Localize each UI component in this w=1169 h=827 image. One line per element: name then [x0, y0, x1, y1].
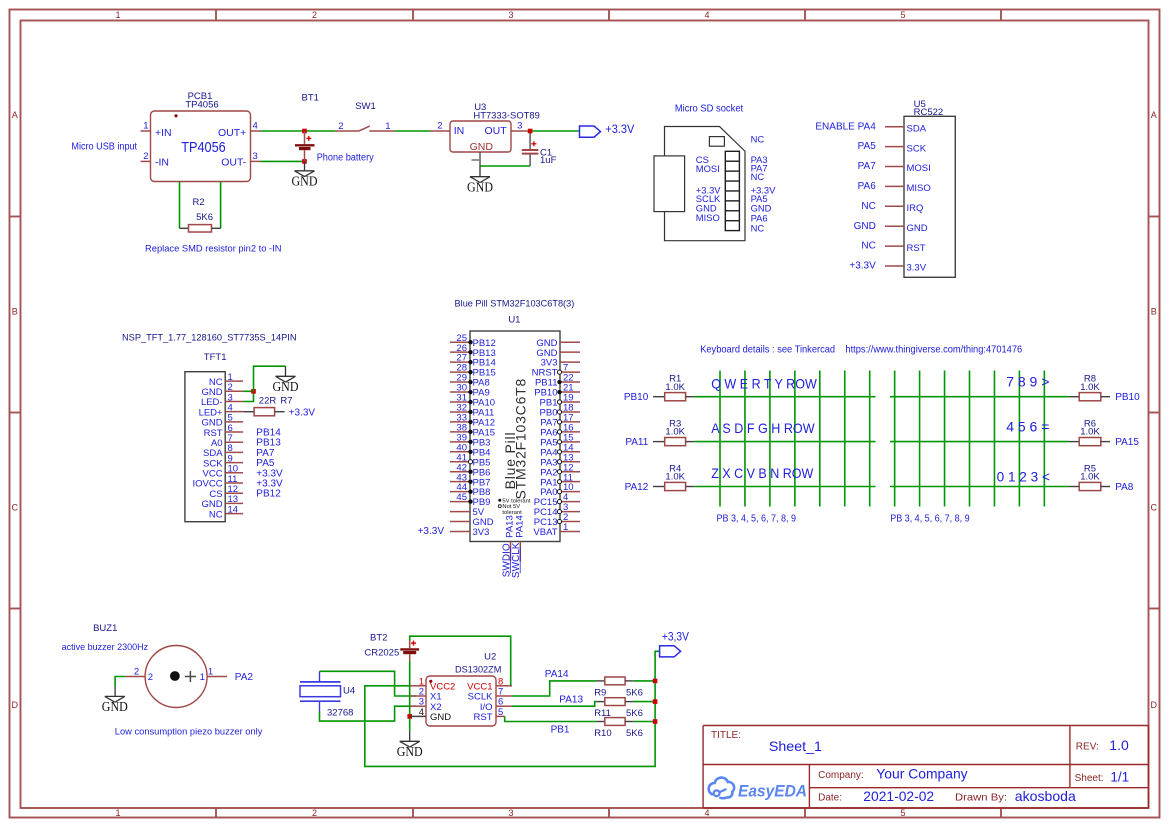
wire row 2 right	[890, 441, 1069, 443]
svg-text:4: 4	[704, 10, 709, 20]
svg-text:REV:: REV:	[1076, 742, 1099, 753]
U3 pin 1 GND	[472, 152, 481, 166]
svg-text:U1: U1	[508, 314, 520, 325]
svg-text:+3.3V: +3.3V	[849, 261, 876, 272]
U2 pin 8 VCC1	[467, 676, 512, 692]
IC PCB1 TP4056 charger	[151, 91, 251, 182]
svg-text:NC: NC	[209, 509, 223, 520]
svg-text:3: 3	[508, 10, 513, 20]
svg-text:TITLE:: TITLE:	[711, 730, 741, 741]
svg-text:IN: IN	[454, 125, 465, 137]
svg-text:STM32F103C6T8: STM32F103C6T8	[513, 378, 529, 500]
U1 5V tolerant legend	[498, 498, 531, 516]
svg-text:PA14: PA14	[514, 515, 525, 538]
svg-text:PA7: PA7	[858, 161, 877, 172]
svg-text:PB12: PB12	[256, 489, 281, 500]
svg-text:DS1302ZM: DS1302ZM	[455, 665, 501, 676]
svg-text:Micro SD socket: Micro SD socket	[675, 104, 744, 115]
svg-text:Phone battery: Phone battery	[317, 152, 374, 163]
svg-text:2: 2	[143, 151, 148, 162]
U1 pin - 3V3	[450, 527, 489, 538]
U1 pin PA14 SWCLK	[511, 515, 525, 578]
wire U4 bottom to X2	[320, 706, 417, 721]
svg-text:2: 2	[312, 808, 317, 818]
U1 pin 14 PA4	[540, 442, 580, 458]
U1 pin 25 PB12	[450, 333, 496, 349]
U1 pin 11 PA1	[540, 472, 580, 488]
svg-text:Your Company: Your Company	[876, 766, 967, 782]
svg-text:3.3V: 3.3V	[907, 263, 927, 274]
IC U2 DS1302ZM	[426, 652, 501, 727]
svg-text:1.0K: 1.0K	[665, 427, 685, 438]
svg-text:RST: RST	[907, 243, 926, 254]
wire OUT- to BT1	[261, 160, 305, 162]
U1 pin 42 PB6	[450, 462, 490, 478]
wire row 1 left	[695, 396, 876, 398]
svg-text:GND: GND	[102, 699, 128, 714]
U1 pin 32 PA11	[450, 403, 494, 419]
SD pin contacts	[725, 151, 739, 230]
svg-text:MOSI: MOSI	[696, 163, 720, 174]
svg-text:4: 4	[419, 707, 424, 718]
TFT1 pin 10 VCC	[203, 464, 284, 480]
wire TFT pin2 to GND net	[243, 390, 253, 392]
svg-text:Sheet:: Sheet:	[1075, 773, 1104, 784]
svg-text:PA2: PA2	[235, 672, 254, 683]
svg-text:OUT-: OUT-	[221, 157, 247, 169]
buzzer BUZ1	[62, 623, 263, 737]
svg-text:NSP_TFT_1.77_128160_ST7735S_14: NSP_TFT_1.77_128160_ST7735S_14PIN	[122, 333, 297, 344]
U1 pin - GND	[450, 517, 494, 528]
U3 pin 2 IN	[430, 120, 450, 131]
svg-text:+3.3V: +3.3V	[289, 408, 316, 419]
U5 pin 5 IRQ	[861, 201, 923, 214]
svg-text:4: 4	[253, 121, 258, 132]
BUZ1 pin 1 PA2	[200, 666, 254, 683]
svg-text:-IN: -IN	[155, 157, 169, 169]
svg-text:RC522: RC522	[914, 107, 944, 118]
svg-text:1.0K: 1.0K	[665, 382, 685, 393]
U1 pin 30 PA9	[450, 383, 490, 399]
junction C1 top	[528, 129, 533, 134]
U5 pin 6 GND	[854, 221, 928, 234]
svg-text:Z X C V B N ROW: Z X C V B N ROW	[711, 465, 814, 481]
U2 pin 7 SCLK	[468, 687, 512, 703]
svg-text:PB 3, 4, 5, 6, 7, 8, 9: PB 3, 4, 5, 6, 7, 8, 9	[717, 514, 797, 525]
U1 pin 1 VBAT	[533, 522, 580, 538]
svg-text:MISO: MISO	[907, 183, 931, 194]
pin 4 OUT+	[251, 121, 261, 132]
TFT1 pin 5 GND	[201, 413, 243, 429]
svg-text:U2: U2	[484, 652, 496, 663]
U1 pin 44 PB8	[450, 482, 490, 498]
wire U3 OUT to flag	[529, 130, 580, 132]
svg-text:GND: GND	[470, 141, 494, 153]
U1 pin 28 PB15	[450, 363, 496, 379]
svg-text:A S D F G H ROW: A S D F G H ROW	[711, 420, 815, 436]
U1 pin 26 PB13	[450, 343, 496, 359]
IC U1 Blue Pill STM32F103C6T8	[455, 298, 575, 541]
svg-text:C: C	[1150, 503, 1157, 513]
keyboard column wires PB3-PB9 group 1	[720, 371, 870, 507]
svg-text:PA6: PA6	[858, 181, 877, 192]
U1 pin 38 PA15	[450, 422, 495, 438]
U2 pin 6 I/O	[480, 697, 512, 713]
battery BT2 CR2025	[364, 633, 419, 661]
svg-text:SDA: SDA	[907, 123, 927, 134]
wire BUZ1 to gnd	[115, 677, 125, 687]
svg-text:BUZ1: BUZ1	[93, 623, 117, 634]
svg-text:SCK: SCK	[907, 143, 927, 154]
svg-text:R9: R9	[594, 687, 606, 698]
svg-text:1uF: 1uF	[540, 155, 557, 166]
U1 pin 31 PA10	[450, 393, 495, 409]
svg-text:+3,3V: +3,3V	[662, 629, 689, 643]
junction BT1 top	[302, 129, 307, 134]
svg-text:14: 14	[228, 504, 239, 515]
U1 pin 29 PA8	[450, 373, 490, 389]
TFT1 pin 6 RST	[204, 423, 282, 439]
resistor R1 1.0K left row 1	[624, 374, 695, 404]
pin 1 +IN	[141, 121, 151, 132]
svg-text:+3.3V: +3.3V	[418, 526, 445, 537]
junction R10 rail	[653, 719, 658, 724]
U5 pin 4 MISO	[858, 181, 931, 194]
svg-text:PA5: PA5	[858, 141, 877, 152]
junction U2 gnd	[407, 714, 412, 719]
svg-text:GND: GND	[467, 179, 493, 194]
svg-text:C: C	[11, 503, 18, 513]
switch SW1	[335, 101, 395, 132]
svg-text:Blue Pill STM32F103C6T8(3): Blue Pill STM32F103C6T8(3)	[455, 298, 575, 309]
svg-text:1.0K: 1.0K	[1080, 382, 1100, 393]
svg-text:Sheet_1: Sheet_1	[769, 738, 822, 754]
svg-text:BT2: BT2	[370, 633, 387, 644]
U5 pin 2 SCK	[858, 141, 927, 154]
svg-text:OUT+: OUT+	[218, 127, 246, 139]
U1 pin 22 PB11	[535, 373, 580, 389]
resistor R6 1.0K right row 2	[1069, 418, 1139, 448]
svg-text:45: 45	[456, 492, 467, 503]
wire row 3 left	[695, 486, 876, 488]
wire R10 to rail	[634, 721, 655, 723]
svg-text:active buzzer 2300Hz: active buzzer 2300Hz	[62, 642, 149, 653]
svg-text:MISO: MISO	[696, 212, 720, 223]
svg-text:1.0K: 1.0K	[1080, 472, 1100, 483]
svg-text:Keyboard details : see Tinkerc: Keyboard details : see Tinkercad https:/…	[700, 344, 1022, 355]
svg-text:GND: GND	[907, 223, 928, 234]
svg-text:32768: 32768	[327, 708, 353, 719]
U1 pin 2 PC13	[534, 512, 580, 528]
resistor R9 5K6	[594, 677, 643, 698]
U5 pin 1 SDA	[815, 121, 926, 134]
svg-text:5: 5	[498, 707, 503, 718]
TFT1 pin 7 A0	[211, 433, 281, 449]
svg-text:Micro USB input: Micro USB input	[71, 142, 137, 153]
resistor R3 1.0K left row 2	[625, 418, 694, 448]
U1 pin 12 PA2	[540, 462, 580, 478]
svg-text:5K6: 5K6	[626, 728, 643, 739]
TFT1 pin 9 SCK	[203, 453, 275, 469]
U1 pin 15 PA5	[540, 432, 580, 448]
svg-text:7 8 9 >: 7 8 9 >	[1006, 374, 1049, 390]
svg-text:GND: GND	[273, 379, 299, 394]
svg-text:+3.3V: +3.3V	[605, 122, 634, 136]
resistor R5 1.0K right row 3	[1069, 463, 1134, 493]
wire U3 GND to C1	[480, 165, 530, 167]
U1 pin 41 PB5	[450, 452, 490, 468]
wire R9 to rail	[634, 680, 655, 682]
ground BT1	[292, 161, 318, 188]
U1 pin 43 PB7	[450, 472, 490, 488]
wire OUT+ to BT1 and SW1	[261, 130, 336, 132]
wire row 2 left	[695, 441, 876, 443]
svg-text:2: 2	[338, 121, 343, 132]
TFT1 pin 11 IOVCC	[193, 474, 284, 490]
svg-text:4 5 6 =: 4 5 6 =	[1006, 419, 1049, 435]
ground U3	[467, 166, 493, 194]
svg-text:2: 2	[312, 10, 317, 20]
svg-text:GND: GND	[854, 221, 876, 232]
wire SCLK to R9 PA14	[512, 681, 596, 696]
wire TFT pin3 up to pin2 net	[243, 391, 253, 401]
svg-text:D: D	[11, 700, 18, 710]
TFT1 pin 12 CS	[209, 484, 281, 500]
BUZ1 pin 2	[125, 666, 153, 683]
svg-text:2021-02-02: 2021-02-02	[863, 788, 934, 804]
resistor R8 1.0K right row 1	[1069, 374, 1140, 404]
U2 pin 5 RST	[474, 707, 505, 723]
battery BT1 Phone battery	[295, 92, 374, 163]
svg-text:Replace SMD resistor pin2 to -: Replace SMD resistor pin2 to -IN	[145, 244, 282, 254]
EasyEDA logo	[709, 778, 807, 801]
netflag +3,3V	[660, 629, 689, 657]
ground TFT	[273, 366, 299, 394]
svg-text:GND: GND	[292, 174, 318, 189]
svg-text:1.0: 1.0	[1109, 737, 1129, 753]
svg-text:5K6: 5K6	[626, 708, 643, 719]
svg-text:PA8: PA8	[1115, 482, 1134, 493]
svg-text:0 1 2 3 <: 0 1 2 3 <	[997, 469, 1050, 485]
wire TFT gnd run	[254, 366, 286, 391]
svg-text:Company:: Company:	[818, 770, 864, 781]
U1 pin PA13 SWDIO	[501, 515, 515, 577]
svg-text:2: 2	[134, 666, 139, 677]
U2 pin 3 X2	[410, 697, 442, 713]
wire R11 to rail	[634, 701, 655, 703]
svg-text:D: D	[1150, 700, 1157, 710]
U1 pin - 3V3	[541, 358, 580, 369]
SD left net labels	[696, 154, 722, 223]
svg-text:1: 1	[115, 10, 120, 20]
svg-text:NC: NC	[861, 241, 875, 252]
U1 pin 33 PA12	[450, 413, 495, 429]
svg-text:GND: GND	[430, 712, 451, 723]
svg-text:PB 3, 4, 5, 6, 7, 8, 9: PB 3, 4, 5, 6, 7, 8, 9	[890, 514, 970, 525]
svg-text:TP4056: TP4056	[185, 100, 218, 111]
svg-text:ENABLE PA4: ENABLE PA4	[815, 121, 876, 132]
wire BT2 minus to gnd	[409, 661, 411, 731]
crystal U4 32768	[300, 671, 355, 718]
svg-text:PA11: PA11	[625, 437, 648, 448]
svg-text:3V3: 3V3	[473, 527, 490, 538]
U3 pin 3 OUT	[511, 120, 529, 131]
svg-text:PA13: PA13	[559, 694, 583, 705]
svg-text:5: 5	[900, 808, 905, 818]
junction R9 rail	[653, 679, 658, 684]
svg-text:22R: 22R	[259, 396, 277, 407]
IC U3 HT7333-SOT89 regulator	[450, 102, 540, 153]
netflag +3.3V U3 output	[580, 122, 635, 137]
svg-text:PB1: PB1	[551, 724, 570, 735]
U1 pin - GND	[536, 348, 580, 359]
svg-text:PA14: PA14	[545, 669, 569, 680]
U2 pin 2 X1	[410, 687, 442, 703]
svg-text:1: 1	[208, 666, 213, 677]
TFT1 pin 13 GND	[201, 494, 243, 510]
svg-text:CR2025: CR2025	[364, 647, 399, 658]
resistor R10 5K6	[594, 718, 643, 739]
TFT1 pin 2 GND	[201, 382, 243, 398]
svg-text:akosboda: akosboda	[1015, 788, 1076, 804]
U2 pin 4 GND	[410, 707, 451, 723]
U5 pin 8 3.3V	[849, 261, 926, 274]
U1 pin 40 PB4	[450, 442, 490, 458]
svg-text:SW1: SW1	[355, 101, 376, 112]
U1 pin 10 PA0	[540, 482, 580, 498]
connector TFT1 box	[185, 352, 227, 522]
junction BT1 bottom	[302, 159, 307, 164]
U1 pin 39 PB3	[450, 432, 490, 448]
U1 pin 16 PA6	[540, 422, 580, 438]
resistor R4 1.0K left row 3	[625, 463, 695, 493]
resistor R2 5K6	[180, 182, 221, 233]
svg-text:NC: NC	[751, 222, 765, 233]
U5 pin 7 RST	[861, 241, 925, 254]
svg-text:BT1: BT1	[302, 92, 319, 103]
svg-text:R2: R2	[193, 197, 205, 208]
svg-text:1/1: 1/1	[1110, 770, 1129, 785]
svg-text:Q W E R T Y ROW: Q W E R T Y ROW	[711, 375, 817, 391]
svg-text:1: 1	[563, 522, 568, 533]
svg-text:MOSI: MOSI	[907, 163, 931, 174]
svg-text:3: 3	[253, 151, 258, 162]
TFT1 pin 3 LED-	[201, 392, 243, 408]
svg-text:GND: GND	[397, 744, 423, 759]
svg-text:VBAT: VBAT	[533, 527, 557, 538]
svg-text:3: 3	[508, 808, 513, 818]
capacitor C1 1uF	[522, 133, 557, 166]
keyboard column wires PB3-PB9 group 2	[895, 371, 1045, 507]
svg-text:B: B	[12, 307, 18, 317]
svg-text:+IN: +IN	[155, 127, 172, 139]
svg-text:Date:: Date:	[818, 793, 842, 804]
U1 pin - GND	[536, 338, 580, 349]
U1 pin - 5V	[450, 507, 485, 518]
svg-text:R7: R7	[280, 396, 292, 407]
svg-text:5: 5	[900, 10, 905, 20]
svg-text:Low consumption piezo buzzer o: Low consumption piezo buzzer only	[115, 726, 263, 737]
TFT1 pin 8 SDA	[203, 443, 275, 459]
svg-text:TFT1: TFT1	[204, 352, 227, 363]
svg-text:PB10: PB10	[624, 392, 649, 403]
wire U4 top to X1	[320, 671, 417, 696]
resistor R11 5K6	[594, 698, 643, 719]
svg-text:3: 3	[517, 120, 522, 131]
U1 pin 4 PC15	[534, 492, 580, 508]
svg-text:PB10: PB10	[1115, 392, 1140, 403]
U1 pin 17 PA7	[540, 413, 580, 429]
U1 pin 19 PB1	[540, 393, 580, 409]
svg-text:PA12: PA12	[625, 482, 649, 493]
svg-text:A: A	[12, 110, 18, 120]
svg-text:1: 1	[200, 672, 205, 683]
svg-text:1: 1	[143, 121, 148, 132]
svg-text:1: 1	[115, 808, 120, 818]
U1 pin 13 PA3	[540, 452, 580, 468]
svg-text:IRQ: IRQ	[907, 203, 924, 214]
svg-text:EasyEDA: EasyEDA	[738, 782, 807, 801]
junction TFT gnd	[251, 389, 256, 394]
U2 pin 1 VCC2	[410, 676, 455, 692]
resistor R7 22R	[243, 396, 292, 416]
svg-text:1: 1	[385, 121, 390, 132]
svg-text:5K6: 5K6	[626, 687, 643, 698]
wire RST to R10 PB1	[505, 716, 596, 721]
Micro SD socket outline	[654, 104, 745, 241]
svg-text:RST: RST	[474, 712, 493, 723]
U1 pin 3 PC14	[534, 502, 580, 518]
SD right net labels	[751, 134, 777, 234]
svg-text:1.0K: 1.0K	[665, 472, 685, 483]
TFT1 pin 1 NC	[209, 372, 243, 388]
svg-text:NC: NC	[751, 171, 765, 182]
junction R11 rail	[653, 699, 658, 704]
U1 pin 27 PB14	[450, 353, 496, 369]
ground BUZ1	[102, 686, 128, 714]
svg-text:PA15: PA15	[1115, 437, 1139, 448]
svg-text:4: 4	[704, 808, 709, 818]
svg-text:OUT: OUT	[485, 125, 508, 137]
svg-text:TP4056: TP4056	[181, 139, 225, 156]
U1 pin 45 PB9	[450, 492, 490, 508]
wire SW1 to U3	[395, 130, 430, 132]
svg-text:2: 2	[148, 672, 153, 683]
svg-text:Drawn By:: Drawn By:	[955, 792, 1007, 804]
ground BT2 U2	[397, 731, 423, 759]
svg-text:R10: R10	[594, 728, 611, 739]
svg-text:U4: U4	[343, 686, 355, 697]
wire row 1 right	[890, 396, 1069, 398]
U5 pin 3 MOSI	[858, 161, 931, 174]
pin 3 OUT-	[251, 151, 261, 162]
svg-text:A: A	[1151, 110, 1157, 120]
TFT1 pin 14 NC	[209, 504, 243, 520]
U1 pin 7 NRST	[532, 363, 580, 379]
svg-text:5K6: 5K6	[196, 212, 213, 223]
TFT1 pin 4 LED+	[199, 402, 244, 418]
svg-text:NC: NC	[751, 134, 765, 145]
title block	[703, 726, 1148, 809]
svg-text:NC: NC	[861, 201, 875, 212]
svg-text:B: B	[1151, 307, 1157, 317]
wire BT2 plus to VCC1	[410, 636, 511, 686]
connector U5 RC522	[904, 99, 955, 277]
pin 2 -IN	[141, 151, 151, 162]
svg-text:1.0K: 1.0K	[1080, 427, 1100, 438]
svg-text:HT7333-SOT89: HT7333-SOT89	[473, 110, 540, 121]
svg-text:2: 2	[437, 120, 442, 131]
